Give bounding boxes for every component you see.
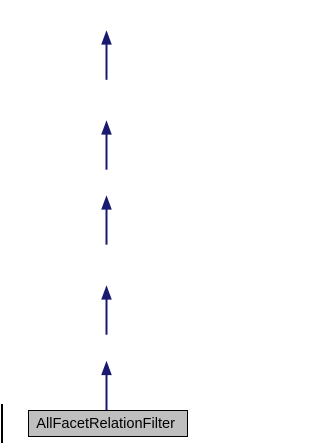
inheritance arrow 1 (topmost) [101,30,112,80]
inheritance arrow 2 [101,120,112,169]
svg-text:AllFacetRelationFilter: AllFacetRelationFilter [36,416,175,432]
class box AllFacetRelationFilter [29,411,188,437]
clipped neighbour box edge (black line at left margin) [1,404,3,443]
inheritance arrow 5 (into class box) [101,361,112,411]
inheritance arrow 3 [101,195,112,244]
inheritance arrow 4 [101,285,112,334]
